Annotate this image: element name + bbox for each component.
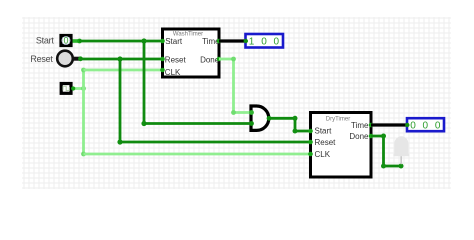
node reset out — [78, 56, 83, 61]
wire clk vertical — [82, 70, 85, 154]
svg-text:Start: Start — [36, 35, 55, 45]
pin WashTimer CLK — [160, 68, 165, 73]
node clk corner top — [81, 68, 86, 73]
svg-text:DryTimer: DryTimer — [326, 117, 350, 123]
subcircuit WashTimer U1 — [163, 29, 221, 77]
junction clk tee — [81, 86, 86, 91]
pin WashTimer Reset — [160, 57, 165, 62]
led L1 — [393, 136, 409, 164]
pin DryTimer CLK — [308, 152, 313, 157]
node dry done corner2 — [381, 164, 386, 169]
svg-text:Reset: Reset — [30, 54, 53, 64]
svg-text:0: 0 — [261, 37, 267, 48]
svg-text:1: 1 — [249, 37, 255, 48]
node dry done corner1 — [381, 134, 386, 139]
svg-text:Done: Done — [200, 56, 220, 65]
svg-text:CLK: CLK — [315, 150, 331, 159]
svg-text:Reset: Reset — [315, 138, 337, 147]
pin AND inA — [249, 110, 254, 115]
label Reset — [30, 54, 53, 64]
node wash done corner1 — [231, 57, 236, 62]
and gate A1 — [251, 106, 269, 130]
wire start stub — [73, 39, 81, 43]
pin DryTimer Time — [369, 123, 374, 128]
wire dry time bus — [371, 123, 408, 126]
pin WashTimer Start — [160, 39, 165, 44]
node and out corner1 — [293, 116, 298, 121]
wire wash done — [219, 59, 252, 113]
node wash done corner2 — [231, 110, 236, 115]
node start out — [77, 39, 82, 44]
pin DryTimer Start — [308, 129, 313, 134]
wire and out — [269, 118, 311, 131]
junction reset branch — [117, 56, 122, 61]
input START — [61, 36, 71, 46]
node clk corner bottom — [81, 152, 86, 157]
node clock out — [71, 86, 75, 90]
wire reset branch to DryTimer — [120, 141, 311, 144]
wire clk to DryTimer — [84, 153, 312, 156]
wire clock stub — [73, 87, 85, 90]
svg-text:Time: Time — [351, 121, 369, 130]
label Start — [36, 35, 55, 45]
wire start branch to AND — [144, 122, 252, 125]
wire wash time bus — [219, 39, 246, 42]
pin DryTimer Reset — [308, 140, 313, 145]
node and out corner2 — [293, 129, 298, 134]
svg-text:0: 0 — [423, 121, 429, 132]
wire start net horizontal — [79, 40, 163, 43]
subcircuit DryTimer U2 — [311, 113, 372, 178]
svg-text:Done: Done — [349, 132, 369, 141]
wire start branch vertical — [143, 41, 146, 124]
node start branch corner — [141, 121, 146, 126]
svg-text:CLK: CLK — [165, 68, 181, 77]
pin WashTimer Done — [217, 57, 222, 62]
svg-text:Reset: Reset — [165, 56, 187, 65]
button RESET — [57, 51, 80, 67]
svg-text:0: 0 — [410, 121, 416, 132]
node display1 in — [244, 39, 248, 43]
svg-text:0: 0 — [63, 36, 68, 46]
svg-text:Start: Start — [315, 127, 333, 136]
display OUT1 value 100 — [246, 34, 284, 48]
node display2 in — [405, 123, 409, 127]
clock CLK — [61, 84, 71, 94]
pin AND out — [267, 116, 272, 121]
wire reset net horizontal — [80, 58, 163, 61]
svg-text:0: 0 — [274, 37, 280, 48]
svg-text:Start: Start — [165, 37, 183, 46]
wire dry done — [371, 136, 401, 166]
node reset branch corner — [117, 139, 122, 144]
svg-text:0: 0 — [435, 121, 441, 132]
wire clk to WashTimer — [84, 69, 164, 72]
display OUT2 value 000 — [407, 118, 444, 131]
wire reset branch vertical — [119, 59, 122, 142]
pin DryTimer Done — [369, 134, 374, 139]
junction start branch — [141, 38, 146, 43]
node led in — [399, 164, 404, 169]
pin AND inB — [249, 121, 254, 126]
pin WashTimer Time — [217, 39, 222, 44]
